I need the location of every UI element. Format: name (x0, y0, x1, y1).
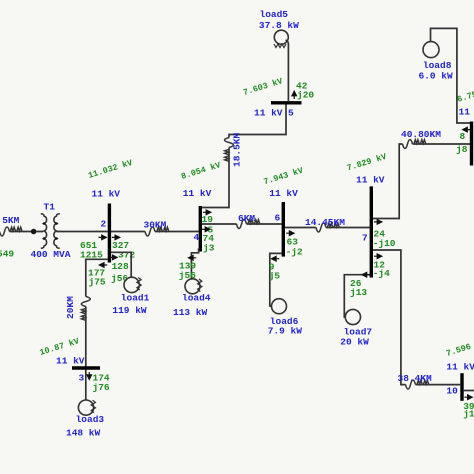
wire bus6 load6 branch (270, 253, 282, 306)
svg-text:j13: j13 (350, 287, 367, 298)
svg-text:3: 3 (79, 373, 85, 384)
svg-text:549: 549 (0, 249, 14, 260)
bus 9 right (470, 122, 473, 166)
svg-text:30KM: 30KM (144, 220, 167, 231)
load5 circle (274, 30, 288, 44)
svg-text:37.8 kW: 37.8 kW (259, 20, 299, 31)
wire bus7 load7 branch (344, 275, 369, 317)
line symbol 14.45KM (316, 223, 339, 232)
load3 circle (78, 400, 93, 415)
wire source line (10, 231, 44, 233)
svg-text:j76: j76 (93, 382, 110, 393)
bus 7 (370, 186, 373, 277)
svg-text:148 kW: 148 kW (66, 428, 101, 439)
arrow bus3 down (87, 372, 92, 379)
svg-text:18.5KM: 18.5KM (232, 132, 243, 167)
svg-text:7.9 kW: 7.9 kW (268, 326, 303, 337)
svg-text:4: 4 (194, 232, 200, 243)
arrow load7 branch (362, 272, 370, 277)
svg-text:-j10: -j10 (373, 238, 396, 249)
svg-text:7: 7 (362, 233, 368, 244)
wire bus7 to 38.4KM (373, 250, 460, 385)
wire 14.45KM line (285, 227, 370, 229)
svg-text:-j2: -j2 (286, 247, 303, 258)
wire bus2 load1 branch (111, 252, 131, 277)
svg-text:j14: j14 (463, 409, 474, 420)
line symbol 20KM (81, 297, 90, 321)
svg-text:400 MVA: 400 MVA (31, 249, 71, 260)
load4 circle (185, 279, 200, 294)
arrow load1 branch (109, 255, 117, 260)
svg-text:14.45KM: 14.45KM (305, 217, 345, 228)
load6 circle (272, 299, 287, 314)
svg-text:load5: load5 (260, 9, 289, 20)
arrow bus2 left branch (99, 263, 107, 268)
bus 6 (282, 202, 285, 257)
svg-text:10: 10 (446, 386, 458, 397)
bus 4 (199, 206, 202, 252)
svg-text:11 kV: 11 kV (269, 188, 298, 199)
svg-text:j5: j5 (269, 271, 281, 282)
wire 30KM line (111, 231, 199, 233)
svg-text:11 kV: 11 kV (92, 189, 121, 200)
svg-text:load8: load8 (423, 60, 452, 71)
svg-text:20 kW: 20 kW (340, 337, 369, 348)
wire bus4 load4 branch (191, 248, 198, 278)
svg-text:5: 5 (288, 108, 294, 119)
svg-text:2: 2 (101, 219, 107, 230)
line symbol 30KM (145, 227, 169, 236)
line symbol 6KM (237, 220, 260, 229)
arrow bus2 main right (112, 235, 120, 240)
svg-text:11 kV: 11 kV (254, 108, 283, 119)
svg-text:6KM: 6KM (238, 213, 255, 224)
svg-text:6: 6 (275, 212, 281, 223)
arrow bus4 top (203, 210, 211, 215)
load8 circle (423, 42, 439, 58)
line symbol 18.5KM (225, 138, 234, 162)
arrow bus7 mid right (374, 254, 382, 259)
wire load8 to bus9 (431, 28, 471, 123)
arrow load4 branch (189, 255, 197, 260)
svg-text:load4: load4 (182, 293, 211, 304)
wire bus2 to bus3 20KM (86, 259, 108, 400)
svg-text:38.4KM: 38.4KM (398, 373, 433, 384)
svg-text:40.80KM: 40.80KM (401, 129, 441, 140)
node junction dot (31, 229, 37, 235)
svg-text:119 kW: 119 kW (112, 305, 147, 316)
line symbol source (0, 227, 22, 236)
svg-text:11 kV: 11 kV (183, 188, 212, 199)
line symbol 40.80KM (403, 140, 426, 149)
svg-text:j20: j20 (297, 90, 314, 101)
arrow bus10 right (464, 395, 472, 400)
svg-text:113 kW: 113 kW (173, 307, 208, 318)
arrow bus9 left (463, 127, 471, 132)
svg-text:11 kV: 11 kV (356, 174, 385, 185)
wire bus7 to 40.80KM (373, 144, 470, 219)
svg-text:j75: j75 (89, 277, 106, 288)
load1 circle (124, 277, 139, 292)
line symbol 38.4KM (406, 380, 429, 389)
svg-text:6.0 kW: 6.0 kW (419, 70, 454, 81)
svg-text:load3: load3 (76, 414, 105, 425)
svg-text:11 kV: 11 kV (446, 362, 474, 373)
svg-text:j8: j8 (456, 144, 468, 155)
arrow load6 branch (271, 256, 279, 261)
svg-text:128: 128 (112, 261, 129, 272)
wire bus5 to load5 (286, 40, 289, 101)
bus 2 (108, 204, 111, 263)
svg-text:j3: j3 (203, 243, 215, 254)
wire T1 to bus2 (57, 231, 108, 233)
bus 3 (72, 366, 100, 369)
svg-text:.5KM: .5KM (0, 215, 20, 226)
arrow bus6 right (286, 231, 294, 236)
bus 5 (271, 101, 302, 104)
svg-text:-j4: -j4 (373, 268, 390, 279)
svg-text:j56: j56 (111, 273, 128, 284)
svg-text:T1: T1 (44, 202, 56, 213)
arrow load5 up (292, 91, 297, 99)
bus 10 (460, 373, 463, 401)
wire bus4 riser to bus5 (202, 105, 286, 208)
svg-text:11: 11 (459, 107, 471, 118)
load7 circle (345, 309, 360, 324)
transformer T1 (41, 214, 60, 248)
svg-text:8: 8 (460, 131, 466, 142)
svg-text:20KM: 20KM (65, 296, 76, 319)
svg-text:372: 372 (118, 250, 135, 261)
arrow bus4 6KM (202, 227, 210, 232)
arrow bus7 top right (374, 220, 382, 225)
svg-text:load1: load1 (121, 293, 150, 304)
wire bus10 right (464, 390, 474, 392)
arrow bus2 main left (99, 235, 107, 240)
wire 6KM line (202, 223, 282, 225)
svg-text:11 kV: 11 kV (56, 356, 85, 367)
